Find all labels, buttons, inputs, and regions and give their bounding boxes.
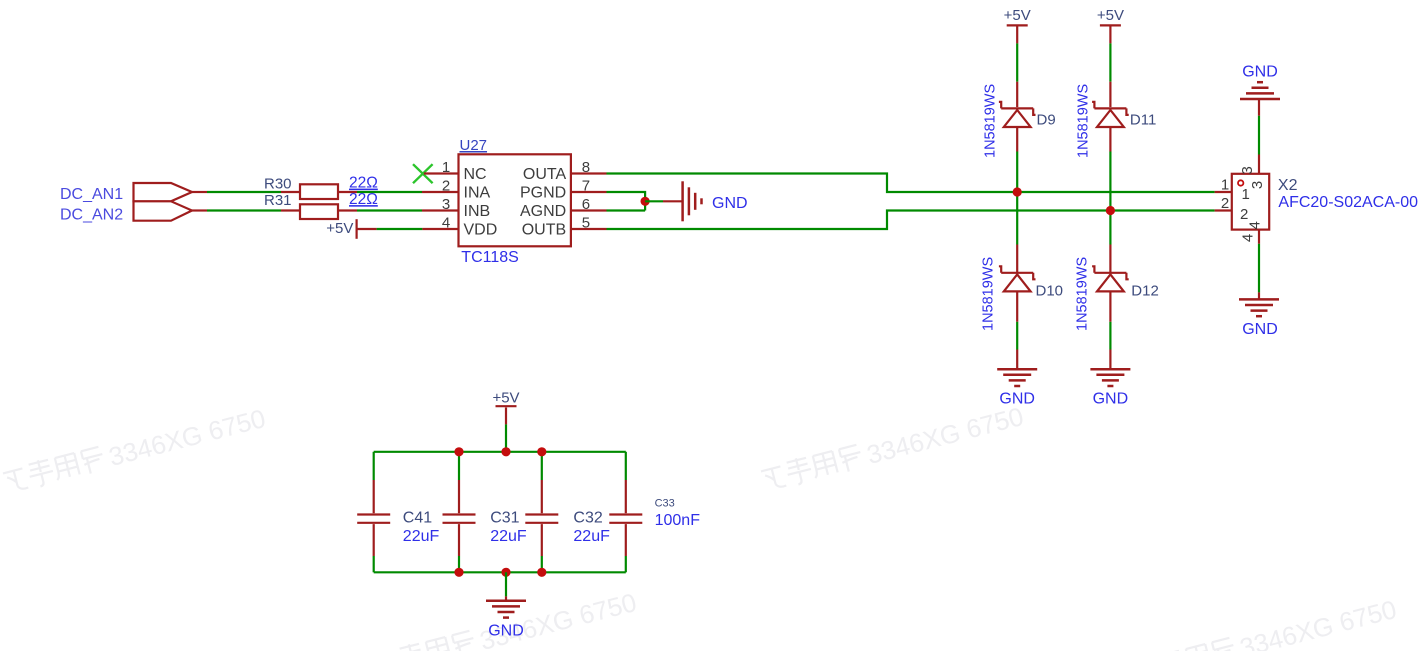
resistor R30 pins [281, 191, 357, 193]
svg-text:U27: U27 [460, 137, 488, 154]
X2 pin 2 lead [1215, 209, 1232, 211]
svg-text:NC: NC [464, 166, 487, 183]
wire +5V to D9 [1016, 27, 1018, 44]
svg-text:GND: GND [1242, 321, 1278, 338]
svg-text:+5V: +5V [492, 389, 519, 406]
svg-text:GND: GND [712, 195, 748, 212]
svg-text:PGND: PGND [520, 184, 566, 201]
wire PGND to junction [607, 192, 646, 211]
svg-text:3: 3 [1249, 181, 1266, 189]
U27 pin 3 lead [422, 209, 459, 211]
svg-text:C41: C41 [403, 509, 432, 526]
svg-text:1: 1 [442, 159, 450, 176]
junction D9/D10 on OUTA bus [1013, 187, 1022, 196]
diode D10 pin [1016, 245, 1018, 273]
svg-text:GND: GND [488, 623, 524, 640]
junction top rail at C32 [537, 447, 546, 456]
U27 pin 6 lead [571, 209, 607, 211]
svg-text:+5V: +5V [326, 220, 353, 237]
svg-text:DC_AN2: DC_AN2 [60, 206, 123, 223]
svg-text:GND: GND [1093, 390, 1129, 407]
svg-text:D10: D10 [1036, 282, 1064, 299]
ground symbol under D10 [997, 369, 1037, 386]
watermark 2 [760, 401, 1027, 497]
junction top rail at +5V [501, 447, 510, 456]
power flag +5V above D11 [1100, 24, 1121, 26]
svg-text:INA: INA [464, 184, 491, 201]
svg-text:D11: D11 [1130, 112, 1156, 129]
resistor R31 body [300, 204, 338, 219]
junction at PGND/AGND [641, 197, 650, 206]
svg-text:R30: R30 [264, 175, 292, 192]
svg-text:VDD: VDD [464, 221, 498, 238]
wire +5V to U27 pin 4 [357, 228, 377, 230]
svg-text:D12: D12 [1131, 282, 1159, 299]
svg-text:22uF: 22uF [490, 528, 527, 545]
power flag +5V above capacitor bank [496, 405, 517, 407]
diode D11 (schottky) [1092, 102, 1129, 127]
watermark 3 [373, 587, 640, 651]
capacitor C41 [357, 452, 390, 573]
X2 pin 1 lead [1215, 191, 1232, 193]
watermark 1 [2, 403, 269, 499]
svg-text:22uF: 22uF [573, 528, 610, 545]
wire GND to X2 pin 3 [1258, 99, 1260, 116]
svg-text:C31: C31 [490, 509, 519, 526]
capacitor C31 [443, 452, 476, 573]
wire R30 to U27 pin 2 [357, 191, 422, 193]
svg-text:3: 3 [442, 196, 450, 213]
diode D12 (schottky) [1092, 266, 1129, 291]
wire OUTA net [607, 174, 1215, 193]
U27 pin 1 lead [424, 172, 459, 174]
junction top rail at C31 [454, 447, 463, 456]
wire DC_AN1 port stub [192, 191, 207, 193]
ground flag (signal GND, sideways) [683, 181, 702, 221]
wire D12 anode to GND [1109, 291, 1111, 321]
svg-text:2: 2 [1240, 206, 1248, 223]
power flag +5V above D9 [1007, 24, 1028, 26]
svg-text:C33: C33 [655, 497, 675, 509]
wire DC_AN1 to R30 [207, 191, 281, 193]
svg-text:OUTB: OUTB [522, 221, 566, 238]
diode D9 (schottky) [999, 102, 1036, 127]
svg-text:4: 4 [1247, 221, 1264, 229]
junction D11/D12 on OUTB bus [1106, 206, 1115, 215]
svg-text:22uF: 22uF [403, 528, 440, 545]
ground symbol under D12 [1090, 369, 1130, 386]
svg-text:4: 4 [1240, 234, 1257, 242]
svg-text:AGND: AGND [520, 203, 566, 220]
op-amp U27 body [459, 154, 571, 246]
capacitor C32 [525, 452, 558, 573]
svg-text:GND: GND [1242, 64, 1278, 81]
wire junction to GND flag [645, 200, 663, 202]
svg-text:R31: R31 [264, 192, 292, 209]
diode D12 pin [1109, 245, 1111, 273]
svg-text:1N5819WS: 1N5819WS [981, 257, 997, 331]
svg-text:+5V: +5V [1004, 7, 1031, 24]
svg-text:TC118S: TC118S [461, 249, 519, 266]
svg-text:1N5819WS: 1N5819WS [1075, 257, 1091, 331]
wire R31 to U27 pin 3 [357, 209, 422, 211]
wire DC_AN2 to R31 [207, 209, 281, 211]
connector X2 body [1232, 174, 1269, 230]
wire top rail [374, 451, 626, 453]
power flag +5V at U27 VDD [356, 219, 358, 239]
resistor R30 body [300, 184, 338, 199]
wire +5V to top rail [505, 408, 507, 425]
U27 pin 7 lead [571, 191, 607, 193]
svg-text:1N5819WS: 1N5819WS [983, 84, 999, 158]
capacitor C33 [609, 452, 642, 573]
wire D9 anode to bus [1016, 127, 1018, 152]
wire D11 anode to bus [1109, 127, 1111, 152]
svg-text:C32: C32 [573, 509, 602, 526]
svg-text:2: 2 [442, 178, 450, 195]
junction bottom rail at GND [501, 568, 510, 577]
no-connect X on U27 pin 1 [413, 164, 433, 183]
wire DC_AN2 port stub [192, 209, 207, 211]
U27 pin 4 lead [422, 228, 458, 230]
svg-text:D9: D9 [1037, 112, 1056, 129]
junction bottom rail at C32 [537, 568, 546, 577]
port DC_AN2 [134, 201, 193, 220]
svg-text:4: 4 [442, 215, 450, 232]
svg-text:OUTA: OUTA [523, 166, 567, 183]
resistor R31 pins [281, 209, 357, 211]
X2 pin-1 indicator circle [1238, 180, 1243, 185]
wire bottom rail to GND [505, 572, 507, 596]
wire AGND to junction [607, 209, 646, 211]
svg-text:2: 2 [1221, 195, 1229, 212]
svg-text:DC_AN1: DC_AN1 [60, 186, 123, 203]
svg-text:X2: X2 [1278, 177, 1298, 194]
U27 pin 2 lead [422, 191, 459, 193]
port DC_AN1 [134, 183, 193, 201]
wire OUTB net [607, 211, 1215, 230]
svg-text:AFC20-S02ACA-00: AFC20-S02ACA-00 [1278, 194, 1418, 211]
U27 pin 8 lead [571, 172, 607, 174]
svg-text:100nF: 100nF [655, 512, 701, 529]
svg-text:1N5819WS: 1N5819WS [1076, 84, 1092, 158]
wire +5V to D11 [1109, 27, 1111, 44]
watermark 4 [1133, 594, 1400, 651]
svg-text:22Ω: 22Ω [349, 191, 378, 208]
svg-text:3: 3 [1239, 166, 1256, 174]
wire D10 anode to GND [1016, 291, 1018, 321]
svg-text:1: 1 [1221, 177, 1229, 194]
ground symbol below capacitor bank [486, 601, 526, 618]
U27 pin 5 lead [571, 228, 607, 230]
ground symbol above X2 (inverted) [1240, 82, 1280, 99]
svg-text:INB: INB [464, 203, 491, 220]
svg-text:GND: GND [999, 390, 1035, 407]
wire X2 pin 4 to GND [1258, 230, 1260, 244]
junction bottom rail at C31 [454, 568, 463, 577]
diode D10 (schottky) [999, 266, 1036, 291]
svg-text:+5V: +5V [1097, 7, 1124, 24]
wire bottom rail [374, 571, 626, 573]
ground symbol below X2 [1239, 299, 1279, 316]
svg-text:22Ω: 22Ω [349, 175, 378, 192]
